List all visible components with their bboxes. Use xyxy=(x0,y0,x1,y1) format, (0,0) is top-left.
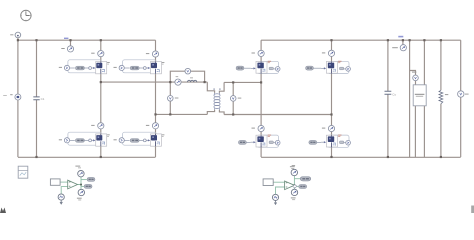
label Pn under rail xyxy=(292,165,295,166)
wire: primary bottom return xyxy=(156,110,215,115)
svg-text:Co: Co xyxy=(392,92,396,96)
ammeter am1 (leg1 top) xyxy=(91,51,104,57)
probe W_6 xyxy=(290,166,298,176)
voltage source V1 xyxy=(3,94,21,100)
node dclink pin top xyxy=(423,39,425,41)
ammeter A1 (series branch) xyxy=(175,76,181,85)
gate tag s8 xyxy=(309,140,321,144)
node loop right xyxy=(204,81,206,83)
node B leg2 midpoint xyxy=(154,113,156,115)
capacitor C1 xyxy=(33,97,44,101)
ammeter Iout xyxy=(392,36,406,51)
node Vp/loop left xyxy=(169,81,171,83)
wire: left top rail xyxy=(18,39,156,41)
inductor L1 xyxy=(188,77,197,82)
goto tag s3 xyxy=(300,177,310,181)
node Co bottom xyxy=(387,156,389,158)
wire: left input vertical xyxy=(17,38,19,157)
wire: leg 1 right bridge xyxy=(260,40,262,157)
voltmeter Vdc xyxy=(412,72,418,81)
resistor R1 xyxy=(439,90,448,103)
node Vp bottom xyxy=(169,113,171,115)
constant block K1 xyxy=(50,179,60,185)
junction dot pwm left xyxy=(80,184,82,186)
triangle-wave source G2 xyxy=(272,194,278,204)
node Co top xyxy=(387,39,389,41)
switch unit Q2 (left top-right) xyxy=(114,60,165,74)
wire: dc-link block top-right pin xyxy=(423,40,425,85)
node port n1 xyxy=(10,32,20,38)
ammeter am4 (leg2 bottom) xyxy=(146,123,159,129)
voltmeter Vm1 (primary) xyxy=(168,96,179,102)
node Idc tap xyxy=(69,39,71,41)
switch unit Q8 (right bottom-right) xyxy=(321,135,350,148)
voltmeter Vm3 (across L1) xyxy=(185,68,191,74)
capacitor Co xyxy=(385,91,397,96)
ammeter am3 (leg1 bottom) xyxy=(91,123,104,129)
goto tag s2 xyxy=(84,184,92,188)
ammeter Am1 (Idc) xyxy=(61,38,73,52)
node secondary-bottom legR2 xyxy=(330,113,332,115)
ammeter am7 (right leg1 bottom) xyxy=(252,125,265,131)
wire: leg 2 right bridge xyxy=(331,40,333,157)
mux diamond xyxy=(293,185,297,188)
wire: secondary top xyxy=(219,82,261,93)
node Vs bottom xyxy=(232,113,234,115)
wire: Iout probe stub xyxy=(402,40,404,45)
node leg1 bottom xyxy=(100,156,102,158)
wire: load R branch vertical xyxy=(440,40,442,157)
wire: leg 1 left bridge xyxy=(100,40,102,157)
probe W_7 xyxy=(291,189,298,200)
bottom-left logo smudge xyxy=(0,208,6,214)
svg-text:C1: C1 xyxy=(41,97,45,101)
voltmeter Vm2 (secondary) xyxy=(230,96,241,102)
probe W_1 xyxy=(77,189,85,200)
wire: right bottom rail xyxy=(261,156,461,158)
goto tag s4 xyxy=(299,185,307,189)
wire: Vs voltmeter branch xyxy=(232,82,234,114)
signal wires (right PWM) xyxy=(273,176,300,194)
node top-left rail corner xyxy=(17,39,19,41)
node C1 top xyxy=(35,39,37,41)
node A leg1 midpoint xyxy=(100,81,102,83)
gate tag s7 xyxy=(238,140,250,144)
comparator C2 xyxy=(285,181,295,190)
wire: Vp voltmeter branch xyxy=(169,82,171,114)
switch unit Q7 (right bottom-left) xyxy=(251,135,280,148)
wire: series branch node A xyxy=(101,82,215,93)
wire: C1 branch vertical xyxy=(36,40,38,157)
triangle-wave source G1 xyxy=(58,194,64,204)
signal wires (left PWM) xyxy=(60,177,87,194)
node leg1 top xyxy=(100,39,102,41)
switch unit Q6 (right top-right) xyxy=(321,61,350,74)
wire: output right vertical xyxy=(460,40,462,157)
node secondary-top legR1 xyxy=(260,81,262,83)
bottom-right edge mark xyxy=(471,206,474,214)
goto tag s1 xyxy=(87,177,95,181)
node R1 bottom xyxy=(440,156,442,158)
wire: voltmeter loop over L1 xyxy=(170,71,204,82)
junction dot pwm right xyxy=(294,184,296,186)
switch unit Q3 (left bottom-left) xyxy=(59,132,110,146)
node dclink left top xyxy=(409,39,411,41)
dc-link block xyxy=(413,85,426,106)
node R1 top xyxy=(440,39,442,41)
wire: Vdc meter connections xyxy=(410,71,416,85)
ammeter am8 (right leg2 bottom) xyxy=(322,125,335,131)
transformer TR1 xyxy=(213,89,220,110)
scope block xyxy=(18,166,28,178)
switch unit Q4 (left bottom-right) xyxy=(114,132,165,146)
node legR2 bottom xyxy=(330,156,332,158)
voltmeter V2 (output) xyxy=(458,91,469,97)
gate tag s6 xyxy=(306,66,322,70)
ammeter am2 (leg2 top) xyxy=(146,51,159,57)
gate tag s5 xyxy=(236,66,251,70)
wire: secondary bottom xyxy=(219,110,331,115)
node Vs top xyxy=(232,81,234,83)
wire: Idc probe stub xyxy=(70,40,72,46)
switch unit Q5 (right top-left) xyxy=(251,61,280,74)
ammeter am6 (right leg2 top) xyxy=(322,50,335,56)
constant block K2 xyxy=(263,179,273,186)
wire: leg 2 left bridge xyxy=(155,40,157,157)
wire: dc-link left vertical xyxy=(409,40,411,157)
switch unit Q1 (left top-left) xyxy=(59,60,110,74)
wire: Co branch vertical xyxy=(387,40,389,157)
wire: right top rail xyxy=(261,39,461,41)
probe W_2 xyxy=(75,166,84,177)
ammeter am5 (right leg1 top) xyxy=(252,50,265,56)
node legR2 top xyxy=(330,39,332,41)
wire: left bottom rail xyxy=(18,156,156,158)
clock block xyxy=(21,10,31,20)
node Iout tap xyxy=(402,39,404,41)
node C1 bottom xyxy=(35,156,37,158)
comparator C1 xyxy=(68,180,78,189)
wire: dc-link block bottom pins xyxy=(415,106,424,157)
